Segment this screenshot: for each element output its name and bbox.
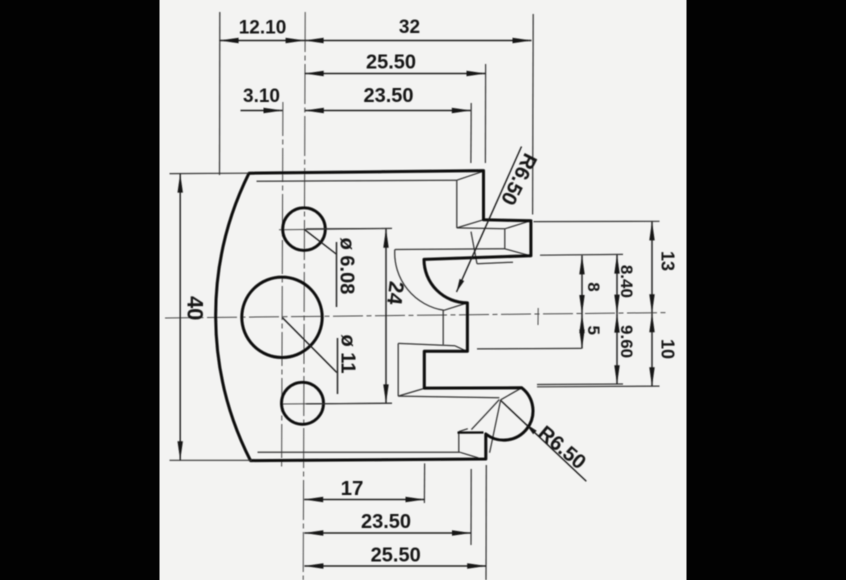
- svg-text:25.50: 25.50: [371, 545, 421, 567]
- svg-text:12.10: 12.10: [239, 17, 287, 38]
- svg-text:23.50: 23.50: [363, 85, 413, 107]
- svg-text:8: 8: [584, 282, 603, 291]
- svg-text:24: 24: [382, 280, 408, 306]
- svg-text:10: 10: [658, 339, 678, 359]
- svg-text:23.50: 23.50: [361, 511, 411, 533]
- svg-text:17: 17: [341, 477, 364, 500]
- svg-text:32: 32: [399, 17, 420, 38]
- svg-text:ø 11: ø 11: [336, 335, 358, 374]
- svg-text:9.60: 9.60: [617, 325, 636, 358]
- svg-text:40: 40: [183, 296, 208, 320]
- svg-text:ø 6.08: ø 6.08: [335, 238, 357, 295]
- svg-text:8.40: 8.40: [617, 265, 636, 298]
- svg-text:13: 13: [658, 251, 678, 271]
- svg-text:5: 5: [584, 325, 603, 334]
- svg-text:3.10: 3.10: [243, 86, 280, 107]
- svg-text:25.50: 25.50: [366, 52, 416, 74]
